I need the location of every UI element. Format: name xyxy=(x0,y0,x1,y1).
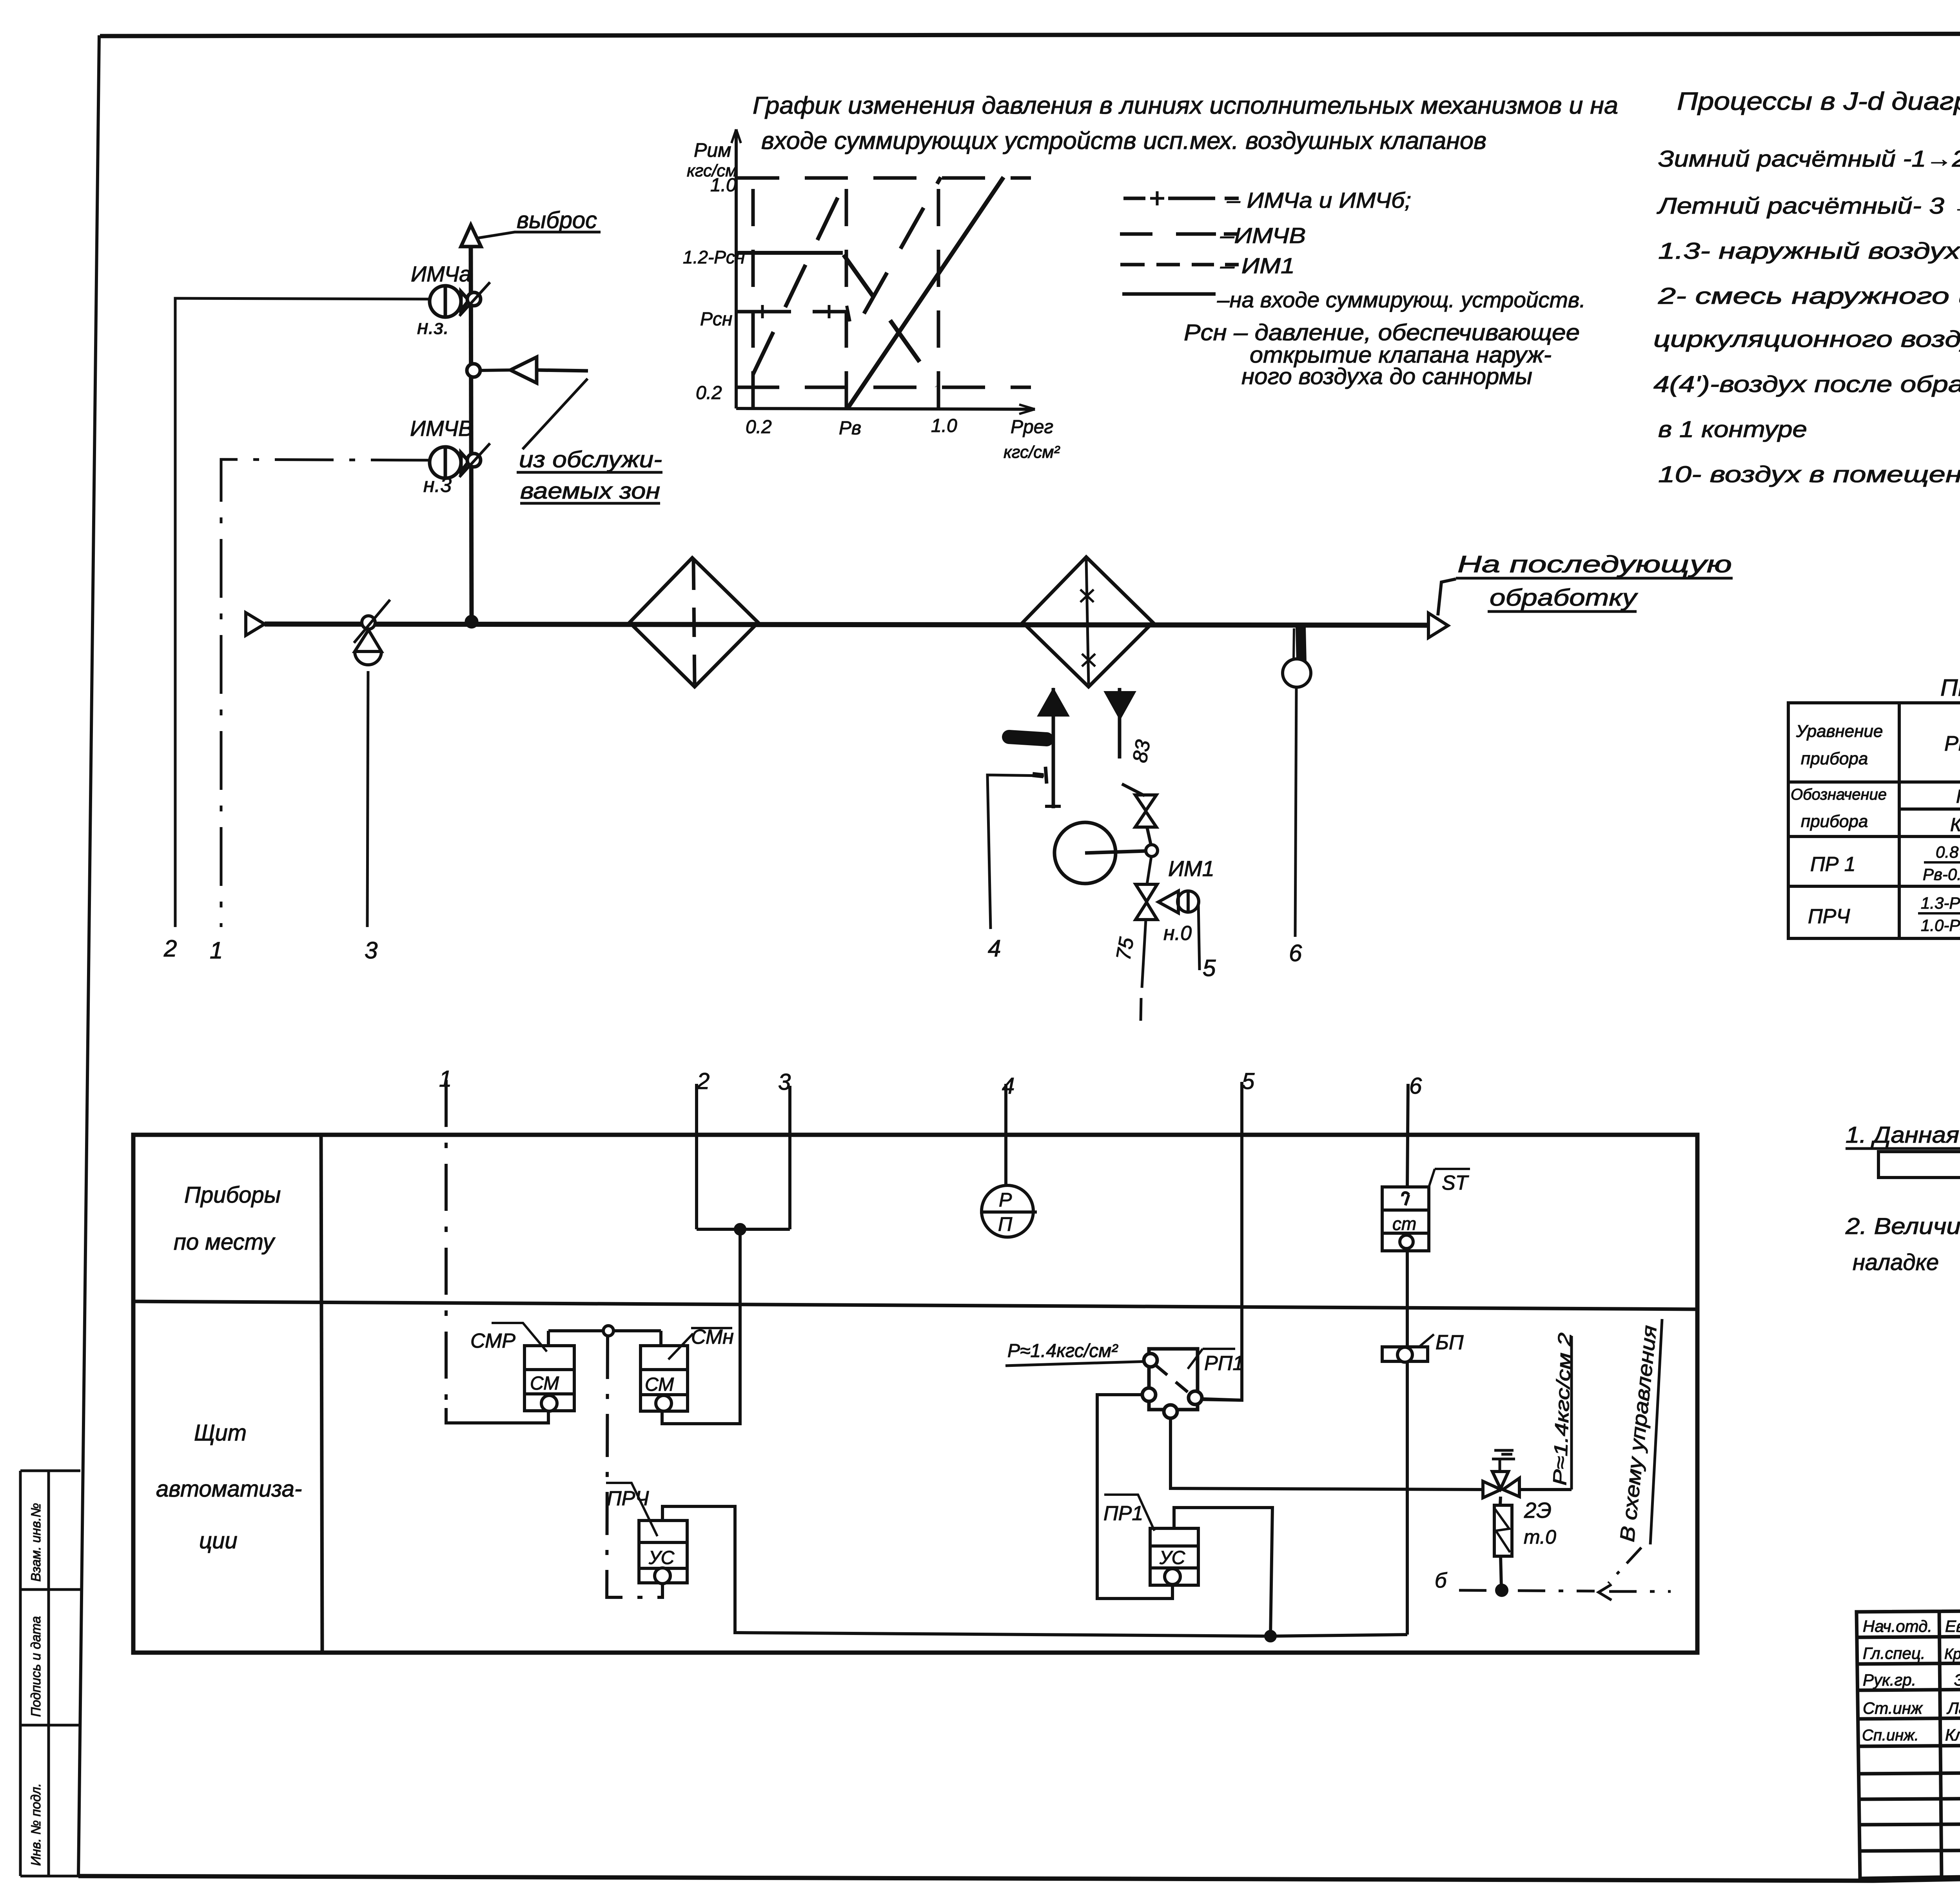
svg-text:ПРЧ: ПРЧ xyxy=(1808,905,1850,928)
svg-text:циркуляционного воздуха: циркуляционного воздуха xyxy=(1653,327,1960,352)
svg-text:– ИМЧа и ИМЧб;: – ИМЧа и ИМЧб; xyxy=(1227,188,1411,212)
staff col lines xyxy=(1939,1611,1960,1877)
junction dot on duct xyxy=(465,615,478,628)
svg-text:Зингерман: Зингерман xyxy=(1954,1671,1960,1689)
б dash-dot line xyxy=(1459,1590,1671,1591)
svg-text:4: 4 xyxy=(1002,1073,1014,1099)
svg-text:П: П xyxy=(998,1213,1013,1235)
svg-text:Рсн: Рсн xyxy=(700,309,732,330)
inlet line xyxy=(537,370,588,371)
svg-text:Нач.отд.: Нач.отд. xyxy=(1863,1617,1932,1635)
svg-text:прибора: прибора xyxy=(1801,812,1868,831)
svg-text:Рв-0.2: Рв-0.2 xyxy=(1923,865,1960,884)
СМР leader xyxy=(492,1323,547,1352)
impulse line to 3 xyxy=(367,671,368,927)
svg-text:2. Величины давлении Рв. Рс: 2. Величины давлении Рв. Рсн (см. график… xyxy=(1845,1214,1960,1239)
svg-text:кгс/см²: кгс/см² xyxy=(1004,443,1060,462)
svg-text:ИМ1: ИМ1 xyxy=(1168,856,1214,881)
ИМЧв pipe circle xyxy=(467,454,481,467)
svg-text:ваемых зон: ваемых зон xyxy=(520,478,660,504)
svg-text:1.3- наружный воздух: 1.3- наружный воздух xyxy=(1658,238,1960,264)
svg-text:БП: БП xyxy=(1436,1331,1464,1354)
svg-text:3: 3 xyxy=(778,1069,791,1095)
svg-text:0.2: 0.2 xyxy=(746,417,772,437)
leader to В схему управления xyxy=(1608,1548,1641,1583)
svg-text:н.з.: н.з. xyxy=(417,316,449,339)
leader line to выброс label xyxy=(478,232,601,238)
curve ИМЧа flat dash-plus xyxy=(736,310,847,314)
curve summing solid xyxy=(848,177,1004,408)
wire ИМ1 to 5 xyxy=(1198,903,1200,970)
svg-text:РП1: РП1 xyxy=(1204,1352,1244,1375)
svg-text:Р≈1.4кгс/см²: Р≈1.4кгс/см² xyxy=(1007,1341,1118,1361)
component РП1 box xyxy=(1149,1349,1198,1410)
2Э three-way valve xyxy=(1483,1472,1519,1498)
wire valve right xyxy=(1519,1488,1572,1491)
sensor 4 tip xyxy=(1045,767,1047,784)
svg-text:Настройка прибора: Настройка прибора xyxy=(1956,786,1960,807)
panel row divider xyxy=(133,1301,1697,1309)
svg-text:наладке: наладке xyxy=(1853,1250,1939,1275)
svg-text:Взам. инв.№: Взам. инв.№ xyxy=(29,1503,44,1582)
svg-text:ПР1: ПР1 xyxy=(1103,1502,1143,1525)
svg-text:10- воздух в помещении: 10- воздух в помещении xyxy=(1658,462,1960,487)
wire РП1 right to line5 xyxy=(1195,1399,1242,1400)
thermometer bulb xyxy=(1283,659,1311,687)
supply arrow (filled up) xyxy=(1040,691,1067,715)
svg-text:1.0: 1.0 xyxy=(710,175,737,196)
svg-text:Р: Р xyxy=(999,1189,1012,1211)
ИМ1 actuator circle xyxy=(1178,891,1199,912)
T mark on riser xyxy=(1045,805,1061,808)
svg-text:83: 83 xyxy=(1129,738,1155,764)
svg-text:1.0-Рз: 1.0-Рз xyxy=(1921,916,1960,934)
component ST box xyxy=(1382,1187,1429,1251)
svg-text:2- смесь наружного и ре-: 2- смесь наружного и ре- xyxy=(1658,283,1960,309)
svg-text:Приборы: Приборы xyxy=(184,1182,281,1208)
svg-text:1. Данная схема применена д: 1. Данная схема применена для следующих … xyxy=(1846,1122,1960,1148)
svg-text:2: 2 xyxy=(163,935,177,962)
filter dashed center line xyxy=(693,561,695,684)
x mark bottom xyxy=(1082,654,1095,666)
staff row lines xyxy=(1857,1635,1960,1851)
line to 6 xyxy=(1295,687,1296,937)
svg-text:Щит: Щит xyxy=(194,1420,247,1446)
svg-text:обработку: обработку xyxy=(1490,584,1639,611)
svg-text:ПР 1: ПР 1 xyxy=(1810,853,1856,876)
svg-text:1: 1 xyxy=(210,937,223,964)
junction dot б xyxy=(1497,1585,1507,1595)
svg-text:1.2-Рсн: 1.2-Рсн xyxy=(683,247,745,267)
ИМЧб slash xyxy=(354,600,390,643)
valve 83 bowtie xyxy=(1135,795,1156,827)
svg-text:1.3-Рсн: 1.3-Рсн xyxy=(1921,894,1960,912)
svg-text:Кростошевский: Кростошевский xyxy=(1944,1646,1960,1662)
return riser xyxy=(1118,688,1122,758)
svg-text:Рим: Рим xyxy=(694,139,731,161)
line 4 xyxy=(1004,1084,1007,1185)
ПР1 leader xyxy=(1104,1495,1154,1531)
solenoid rect 2Э xyxy=(1500,1497,1501,1505)
bus СМР-СМн xyxy=(548,1331,661,1346)
svg-text:ного воздуха до саннормы: ного воздуха до саннормы xyxy=(1241,364,1532,389)
legend line ИМ1 xyxy=(1120,263,1239,267)
svg-text:4(4')-воздух после обработки: 4(4')-воздух после обработки xyxy=(1653,372,1960,397)
curve ИМЧВ flat top xyxy=(736,251,843,255)
svg-text:СМ: СМ xyxy=(530,1373,559,1394)
83 lower segment xyxy=(1122,784,1145,796)
filter diamond xyxy=(630,558,758,687)
heat exchanger center line xyxy=(1086,560,1089,684)
ИМ1 actuator cone xyxy=(1158,891,1178,913)
ИМЧа slash xyxy=(459,282,490,316)
panel label column divider xyxy=(321,1135,322,1653)
svg-text:Подпись и дата: Подпись и дата xyxy=(29,1616,44,1717)
supply riser xyxy=(1052,688,1055,808)
table PR1 col1 divider xyxy=(1898,703,1901,938)
svg-text:входе суммирующих устройств ис: входе суммирующих устройств исп.мех. воз… xyxy=(761,127,1486,154)
svg-text:Рук.гр.: Рук.гр. xyxy=(1863,1671,1916,1689)
main duct line xyxy=(265,624,1428,625)
supply label underline (rotated) xyxy=(1570,1336,1573,1490)
table PR1 row lines xyxy=(1788,782,1960,886)
svg-text:Ст.инж: Ст.инж xyxy=(1863,1699,1923,1717)
ИМ1 tail dash xyxy=(1141,998,1141,1021)
outlet arrow xyxy=(1428,613,1448,638)
svg-text:– ИМ1: – ИМ1 xyxy=(1220,253,1295,278)
wire ПР1 bottom to РП1 xyxy=(1097,1395,1172,1599)
panel outer box xyxy=(133,1135,1697,1653)
line 6 xyxy=(1407,1084,1408,1635)
svg-text:СМн: СМн xyxy=(691,1326,734,1348)
valve 83 stem xyxy=(1147,827,1151,845)
ИМЧв slash xyxy=(459,443,490,477)
x mark top xyxy=(1080,590,1094,602)
component УС(ПР1) box xyxy=(1150,1528,1198,1585)
frame left border xyxy=(78,35,99,1876)
svg-text:ST: ST xyxy=(1442,1172,1469,1194)
exhaust vertical pipe xyxy=(471,247,472,621)
svg-text:0.2: 0.2 xyxy=(696,383,722,403)
svg-text:б: б xyxy=(1435,1569,1447,1592)
valve ИМ1 bowtie xyxy=(1136,884,1157,920)
instrument P/П circle xyxy=(982,1185,1033,1237)
valve stem and vent xyxy=(1492,1450,1515,1472)
РП1 leader xyxy=(1188,1349,1235,1369)
wire УС top to long bus xyxy=(662,1506,1407,1636)
svg-text:Евтушенко: Евтушенко xyxy=(1945,1617,1960,1635)
actuator ИМЧа circle xyxy=(430,286,461,317)
svg-text:ПР1; ПРЧ (ПР2.8): ПР1; ПРЧ (ПР2.8) xyxy=(1940,675,1960,701)
ИМЧб actuator circle xyxy=(355,651,381,665)
underline В схему управления xyxy=(1650,1319,1662,1544)
ST leader xyxy=(1429,1169,1470,1187)
svg-text:5: 5 xyxy=(1242,1069,1255,1094)
ИМЧб pipe circle xyxy=(362,616,375,629)
impulse line to 2 xyxy=(175,298,430,927)
svg-text:6: 6 xyxy=(1289,940,1302,966)
junction dot 2-3 xyxy=(735,1225,745,1234)
svg-text:Лазаренко: Лазаренко xyxy=(1946,1699,1960,1717)
table PR1 outer xyxy=(1788,703,1960,938)
ST hook glyph xyxy=(1403,1192,1409,1205)
pump radius line xyxy=(1085,851,1146,853)
frame bottom border xyxy=(78,1865,1960,1881)
dashed grid line y=1.0 xyxy=(736,176,1031,180)
legend line ИМЧа и ИМЧб xyxy=(1123,197,1239,200)
line 2 xyxy=(695,1084,698,1229)
wire to СМн bottom xyxy=(662,1229,740,1424)
line 1 dash-dot xyxy=(445,1080,448,1408)
svg-text:н.0: н.0 xyxy=(1163,922,1192,945)
РП1 port circles xyxy=(1144,1354,1157,1367)
legend line solid xyxy=(1122,292,1216,296)
frame top border xyxy=(100,33,1960,36)
svg-text:Ррег: Ррег xyxy=(1011,417,1053,437)
svg-text:Клименко: Клименко xyxy=(1945,1726,1960,1744)
outlet leader xyxy=(1438,579,1456,615)
б arrowhead xyxy=(1599,1584,1612,1600)
dash-dot to УС ПРЧ xyxy=(607,1336,662,1597)
ИМ1 stem line down xyxy=(1142,856,1151,988)
svg-text:3: 3 xyxy=(365,937,377,964)
svg-text:ции: ции xyxy=(199,1528,238,1553)
svg-text:ПРЧ: ПРЧ xyxy=(607,1487,649,1510)
svg-text:УС: УС xyxy=(648,1548,675,1568)
ИМЧа valve cone xyxy=(461,292,469,310)
component БП box xyxy=(1382,1347,1428,1361)
svg-text:2Э: 2Э xyxy=(1524,1498,1552,1522)
svg-text:н.3: н.3 xyxy=(423,474,452,497)
wire solenoid to б xyxy=(1501,1556,1501,1588)
svg-text:Инв. № подл.: Инв. № подл. xyxy=(29,1783,44,1866)
duct inlet arrow xyxy=(246,613,265,635)
vent triangle (выброс) xyxy=(461,225,481,247)
svg-text:4: 4 xyxy=(988,935,1001,962)
svg-text:График изменения давления в ли: График изменения давления в линиях испол… xyxy=(753,92,1618,119)
dashed vertical x=1.0 xyxy=(937,178,940,408)
svg-text:0.8: 0.8 xyxy=(1936,843,1959,861)
svg-text:Обозначение: Обозначение xyxy=(1791,786,1887,803)
junction circle pump line xyxy=(1146,845,1158,856)
svg-text:ст: ст xyxy=(1392,1214,1416,1234)
inlet arrow triangle xyxy=(510,357,537,383)
svg-text:К: К xyxy=(1950,815,1960,835)
svg-text:УС: УС xyxy=(1159,1548,1185,1568)
БП leader xyxy=(1419,1334,1434,1347)
svg-text:автоматиза-: автоматиза- xyxy=(156,1476,302,1502)
dashed grid line y=0.2 xyxy=(736,386,1031,389)
svg-text:Уравнение: Уравнение xyxy=(1796,722,1883,741)
return arrow (filled down) xyxy=(1106,693,1134,717)
svg-text:ИМЧа: ИМЧа xyxy=(411,261,471,286)
thermometer stem xyxy=(1301,627,1301,662)
svg-text:На последующую: На последующую xyxy=(1457,551,1732,577)
graph X axis xyxy=(736,408,1035,409)
ИМЧа pipe circle xyxy=(467,292,481,306)
component УС(ПРЧ) box xyxy=(639,1521,687,1583)
ПРЧ leader xyxy=(606,1483,657,1536)
inlet diagonal leader xyxy=(523,379,588,449)
svg-text:5: 5 xyxy=(1203,955,1216,981)
curve ИМЧВ descending dash xyxy=(844,255,937,386)
line 5 xyxy=(1198,1082,1242,1400)
curve ИМ1 dashed steep xyxy=(753,177,848,374)
component СМР box xyxy=(524,1346,574,1411)
lines 2-3 connector xyxy=(697,1228,790,1231)
svg-text:прибора: прибора xyxy=(1801,749,1868,768)
svg-text:Летний расчётный- 3 → 4': Летний расчётный- 3 → 4' xyxy=(1656,193,1960,219)
svg-text:выброс: выброс xyxy=(517,207,597,233)
dashed vertical x=0.2 xyxy=(751,178,755,408)
component СМн box xyxy=(641,1346,688,1411)
svg-text:Сп.инж.: Сп.инж. xyxy=(1862,1727,1919,1744)
svg-text:Рв: Рв xyxy=(839,418,861,439)
legend line ИМЧВ xyxy=(1120,232,1238,236)
pump circle xyxy=(1054,822,1116,884)
svg-text:Рвых = К(Рвх-Рз) + Ро: Рвых = К(Рвх-Рз) + Ро xyxy=(1944,732,1960,755)
svg-text:по месту: по месту xyxy=(174,1229,276,1255)
line 3 xyxy=(788,1086,791,1229)
graph Y axis xyxy=(735,129,738,408)
СМн leader xyxy=(668,1334,693,1359)
thermo pocket blob xyxy=(1009,737,1047,739)
wire ПР1 top xyxy=(1174,1508,1272,1636)
dashed vertical x=Pв xyxy=(845,178,848,408)
junction circle on pipe xyxy=(467,364,480,377)
svg-text:из обслужи-: из обслужи- xyxy=(519,447,662,472)
note 1 box xyxy=(1878,1152,1960,1178)
svg-text:–ИМЧВ: –ИМЧВ xyxy=(1220,223,1306,248)
actuator ИМЧв circle xyxy=(430,447,461,478)
РП1 dashed diagonal xyxy=(1155,1365,1191,1395)
wire РП1 bottom to valve xyxy=(1171,1412,1483,1490)
heat exchanger diamond xyxy=(1023,557,1153,687)
title block outer xyxy=(1857,1606,1960,1878)
svg-text:Зимний расчётный -1→2→4: Зимний расчётный -1→2→4 xyxy=(1658,146,1960,172)
svg-text:–на входе суммирующ. устройств: –на входе суммирующ. устройств. xyxy=(1217,287,1586,312)
sensor 4 line xyxy=(987,775,1044,929)
svg-text:6: 6 xyxy=(1409,1073,1422,1099)
curve dashed parallel xyxy=(864,177,941,314)
svg-text:1: 1 xyxy=(439,1066,452,1092)
junction circle on bus xyxy=(603,1326,613,1336)
ИМЧб actuator triangle xyxy=(355,630,381,651)
svg-text:Гл.спец.: Гл.спец. xyxy=(1863,1644,1926,1662)
svg-text:т.0: т.0 xyxy=(1524,1526,1556,1548)
svg-text:СМР: СМР xyxy=(470,1330,515,1352)
svg-text:ИМЧВ: ИМЧВ xyxy=(410,416,473,441)
wire Р1.4 to РП1 xyxy=(1005,1361,1148,1366)
ИМЧв valve cone xyxy=(461,453,469,472)
left margin stamp table xyxy=(19,1471,22,1876)
junction dot ПР1 wire xyxy=(1266,1631,1275,1641)
svg-text:2: 2 xyxy=(697,1069,710,1094)
impulse line to 1 xyxy=(221,459,430,927)
svg-text:75: 75 xyxy=(1112,935,1138,962)
svg-text:Рсн – давление, обеспечивающе: Рсн – давление, обеспечивающее xyxy=(1184,320,1580,345)
svg-text:Процессы в J-d диаграмме: Процессы в J-d диаграмме xyxy=(1677,87,1960,115)
svg-text:СМ: СМ xyxy=(645,1374,674,1395)
svg-text:1.0: 1.0 xyxy=(931,416,957,436)
svg-text:в 1 контуре: в 1 контуре xyxy=(1658,417,1807,442)
